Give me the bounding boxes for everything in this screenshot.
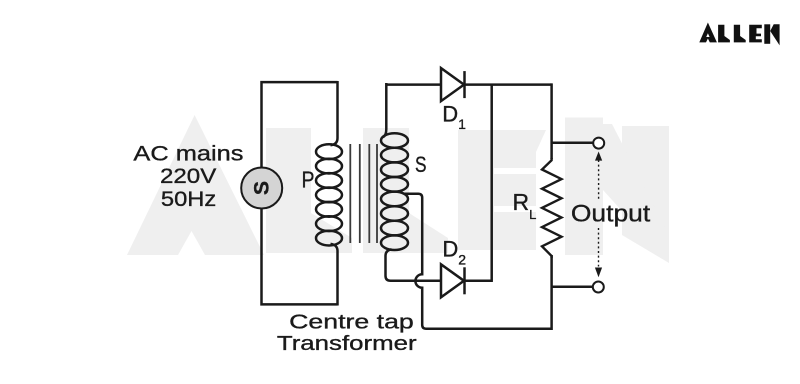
wire output stub bottom	[552, 286, 593, 289]
logo letter L (second)	[734, 25, 746, 43]
circuit wires	[262, 81, 594, 330]
watermark letter N	[565, 118, 603, 256]
svg-text:Centre tap: Centre tap	[289, 310, 414, 333]
logo letter E	[749, 25, 762, 43]
wire top rail	[386, 83, 552, 86]
logo letter L (first)	[718, 25, 730, 43]
wire right vertical bottom	[550, 255, 553, 330]
watermark letter E	[458, 130, 536, 250]
wire primary bottom lead	[331, 244, 338, 306]
watermark letter L (second)	[363, 128, 448, 253]
dashed output arrows	[595, 152, 602, 278]
svg-text:Output: Output	[571, 201, 651, 228]
wire primary top lead	[331, 81, 338, 145]
wire left loop	[262, 82, 338, 304]
AC source (sine source)	[241, 168, 282, 209]
watermark letter A	[127, 115, 264, 255]
wire cathode join vertical	[464, 85, 493, 281]
svg-text:P: P	[302, 167, 315, 193]
wire right vertical top	[550, 83, 553, 159]
svg-text:AC mains: AC mains	[133, 142, 243, 166]
wire secondary top lead	[383, 83, 386, 137]
svg-text:S: S	[415, 152, 427, 177]
output terminal bottom	[593, 282, 604, 293]
watermark letter L (first)	[266, 128, 352, 253]
diode D2	[441, 264, 465, 297]
output terminal top	[593, 138, 604, 149]
resistor RL	[542, 158, 562, 258]
watermark ALLEN background	[127, 115, 669, 263]
wire centre tap with hop	[404, 194, 552, 329]
diode D1	[441, 68, 465, 101]
logo letter A	[699, 23, 717, 43]
wire secondary bottom lead	[386, 249, 441, 280]
wire output stub top	[552, 142, 593, 145]
svg-text:220V: 220V	[160, 164, 217, 188]
svg-text:Transformer: Transformer	[277, 332, 417, 355]
transformer primary coil P	[316, 144, 342, 245]
svg-text:S: S	[250, 181, 273, 195]
ALLEN logo top right	[699, 23, 779, 46]
logo letter N	[764, 24, 770, 44]
transformer secondary coil S	[381, 133, 408, 250]
transformer core lines	[350, 144, 377, 243]
svg-text:50Hz: 50Hz	[161, 187, 216, 211]
